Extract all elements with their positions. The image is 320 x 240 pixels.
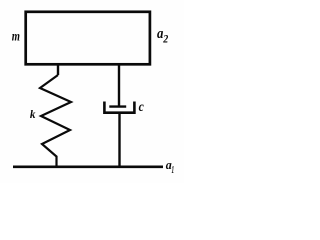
mass block M [26, 12, 150, 65]
spring k : top stem [57, 65, 59, 76]
damper c : cylinder cup [104, 102, 134, 113]
svg-text:m: m [12, 29, 20, 44]
damper c : upper rod [118, 65, 120, 107]
ground line a1 [13, 166, 163, 169]
spring k : zigzag [40, 75, 71, 168]
damper c : piston plate [109, 105, 126, 107]
svg-text:2: 2 [162, 33, 168, 45]
damper c : lower rod [118, 113, 120, 167]
svg-text:k: k [30, 109, 36, 121]
svg-text:c: c [139, 100, 145, 115]
svg-text:1: 1 [172, 165, 175, 176]
